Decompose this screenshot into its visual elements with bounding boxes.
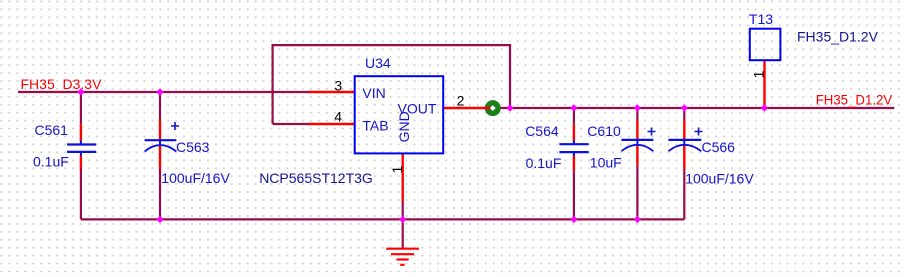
- capacitor C566 plates (polarized): [668, 140, 701, 151]
- wire C561 top pin (red): [80, 124, 82, 141]
- svg-text:1: 1: [750, 70, 766, 78]
- wire U34 pin1 GND stub (red): [402, 153, 404, 201]
- svg-text:2: 2: [457, 93, 465, 109]
- svg-text:0.1uF: 0.1uF: [33, 153, 69, 169]
- wire C610 branch upper: [636, 108, 638, 120]
- svg-text:C561: C561: [35, 122, 69, 138]
- svg-text:FH35_D1.2V: FH35_D1.2V: [816, 92, 893, 108]
- junction input wire / C561: [77, 88, 84, 95]
- capacitor C610 plus sign: [648, 128, 656, 136]
- node VOUT green ring: [484, 100, 501, 116]
- wire C610 bottom pin (red): [636, 146, 638, 166]
- wire C610 top pin (red): [636, 120, 638, 140]
- svg-text:C610: C610: [587, 123, 621, 139]
- wire U34 pin2 VOUT stub (red): [443, 107, 493, 109]
- svg-text:0.1uF: 0.1uF: [526, 155, 562, 171]
- wire FH35_D1.2V output horizontal: [493, 107, 894, 109]
- wire ground bus bottom: [81, 218, 684, 220]
- wire U34 pin4 stub (red): [308, 123, 355, 125]
- svg-text:C563: C563: [176, 139, 210, 155]
- junction bus / U34 gnd: [399, 216, 406, 223]
- junction bus / C610: [634, 216, 641, 223]
- wire C561 branch upper: [80, 92, 82, 124]
- wire C566 bottom pin (red): [683, 146, 685, 170]
- wire C563 branch upper: [159, 92, 161, 120]
- wire C566 branch lower: [683, 170, 685, 220]
- capacitor C564 plates: [559, 140, 588, 156]
- junction output wire / TAB loop: [506, 104, 513, 111]
- capacitor C563 plates (polarized): [145, 140, 177, 151]
- capacitor C561 plates: [67, 141, 96, 156]
- wire C561 bottom pin (red): [80, 155, 82, 169]
- wire C564 branch upper: [573, 108, 575, 124]
- wire bus to ground symbol: [402, 219, 404, 248]
- wire VOUT-TAB loop (left vertical, top horizontal, right vertical): [273, 45, 510, 124]
- junction output wire / C566: [681, 104, 688, 111]
- wire U34 gnd to bus: [402, 202, 404, 220]
- wire C566 branch upper: [683, 108, 685, 120]
- wire TAB net to pin4: [273, 123, 308, 125]
- op-amp U34 regulator box: [355, 76, 444, 153]
- wire C564 bottom pin (red): [573, 156, 575, 172]
- junction output wire / C610: [634, 104, 641, 111]
- capacitor C566 plus sign: [695, 128, 703, 136]
- svg-text:FH35_D1.2V: FH35_D1.2V: [797, 28, 879, 44]
- junction bus / C563: [156, 216, 163, 223]
- wire C563 bottom pin (red): [159, 146, 161, 169]
- junction input wire / C563: [156, 88, 163, 95]
- wire C563 branch lower: [159, 169, 161, 219]
- svg-text:C564: C564: [525, 123, 559, 139]
- junction bus / C564: [570, 216, 577, 223]
- wire C566 top pin (red): [683, 120, 685, 140]
- junction output wire / T13: [761, 104, 768, 111]
- svg-text:T13: T13: [749, 11, 773, 27]
- wire T13 pin1 stub (red): [763, 60, 765, 108]
- capacitor C563 plus sign: [171, 122, 179, 130]
- svg-text:TAB: TAB: [362, 118, 388, 134]
- svg-text:NCP565ST12T3G: NCP565ST12T3G: [259, 170, 373, 186]
- svg-text:100uF/16V: 100uF/16V: [161, 170, 230, 186]
- wire C561 branch lower: [80, 169, 82, 219]
- svg-text:4: 4: [334, 109, 342, 125]
- wire C563 top pin (red): [159, 120, 161, 140]
- wire U34 pin3 stub (red): [308, 91, 355, 93]
- svg-text:100uF/16V: 100uF/16V: [685, 170, 754, 186]
- svg-text:3: 3: [334, 78, 342, 94]
- svg-text:1: 1: [389, 166, 405, 174]
- wire C564 top pin (red): [573, 124, 575, 141]
- capacitor C610 plates (polarized): [621, 140, 653, 151]
- wire C564 branch lower: [573, 171, 575, 219]
- testpoint T13 box: [750, 29, 781, 61]
- svg-text:GND: GND: [396, 111, 412, 142]
- ground symbol bars: [386, 249, 419, 265]
- svg-text:FH35_D3.3V: FH35_D3.3V: [21, 76, 103, 92]
- wire C610 branch lower: [636, 166, 638, 220]
- svg-text:10uF: 10uF: [590, 155, 622, 171]
- svg-text:VIN: VIN: [362, 85, 385, 101]
- svg-text:U34: U34: [365, 55, 391, 71]
- wire FH35_D3.3V input horizontal: [18, 91, 308, 93]
- svg-text:C566: C566: [702, 139, 736, 155]
- junction output wire / C564: [570, 104, 577, 111]
